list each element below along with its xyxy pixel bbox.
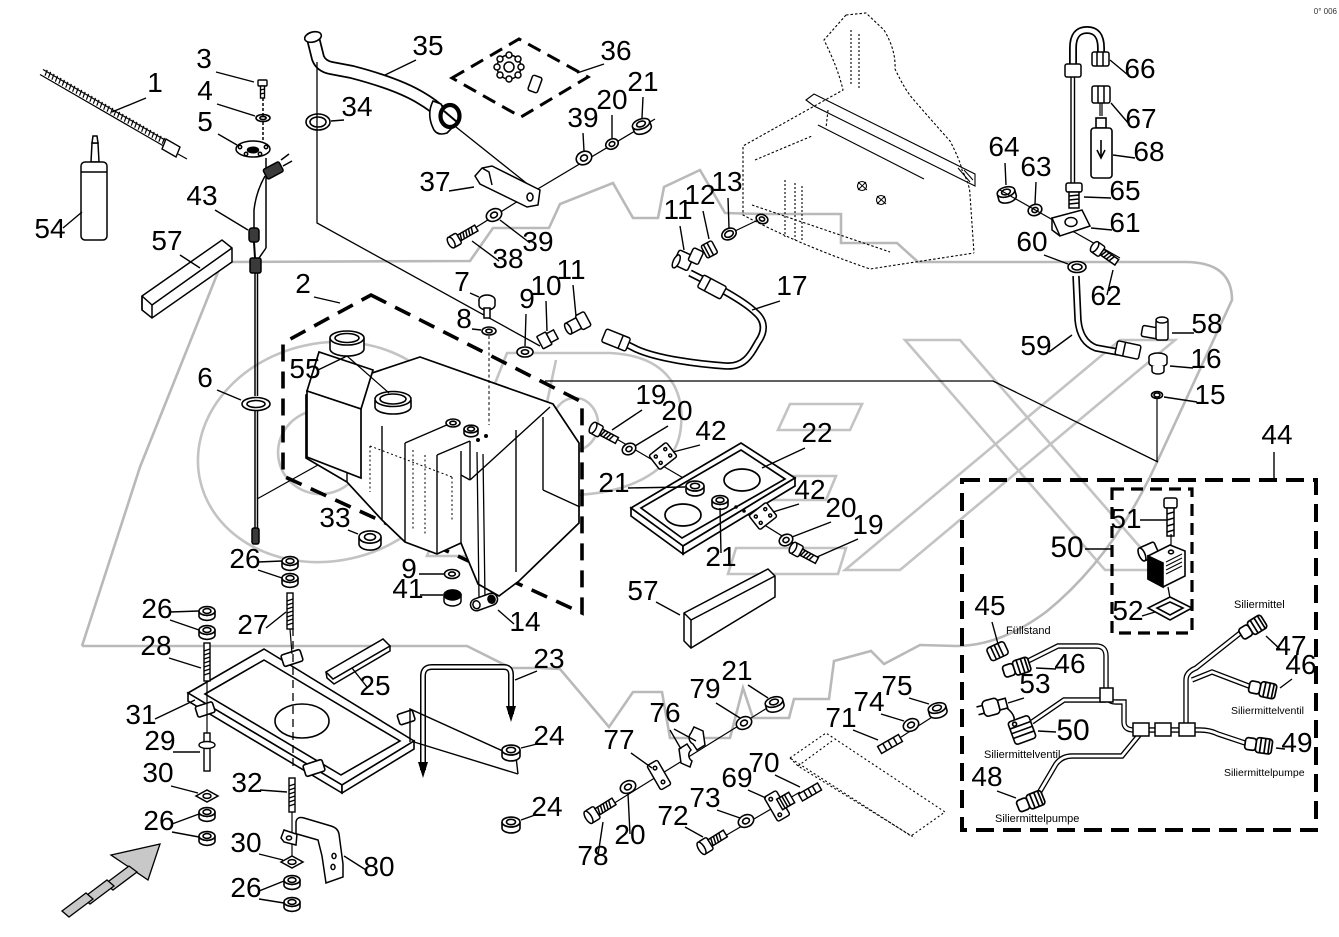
line 32 down bbox=[291, 812, 293, 856]
leader 42a bbox=[673, 445, 700, 452]
part 20d washer bbox=[618, 778, 638, 796]
part 14 link bbox=[469, 592, 499, 613]
svg-text:24: 24 bbox=[533, 720, 564, 751]
svg-text:74: 74 bbox=[853, 686, 884, 717]
leader 5 bbox=[218, 134, 237, 145]
svg-text:35: 35 bbox=[412, 30, 443, 61]
leader 22 bbox=[762, 448, 805, 468]
svg-text:3: 3 bbox=[196, 43, 212, 74]
svg-text:5: 5 bbox=[197, 106, 213, 137]
svg-text:49: 49 bbox=[1281, 727, 1312, 758]
leader 8 bbox=[472, 329, 481, 330]
svg-text:6: 6 bbox=[197, 362, 213, 393]
svg-text:4: 4 bbox=[197, 75, 213, 106]
part 6 ring bbox=[242, 398, 270, 411]
svg-text:50: 50 bbox=[1050, 531, 1083, 564]
hose 17 sleeve right bbox=[697, 275, 727, 300]
svg-text:45: 45 bbox=[974, 590, 1005, 621]
svg-text:Siliermittelpumpe: Siliermittelpumpe bbox=[995, 813, 1079, 825]
part 28 stud bbox=[204, 643, 210, 681]
hose 17 sleeve left bbox=[601, 329, 630, 352]
svg-text:54: 54 bbox=[34, 213, 65, 244]
leader 10 bbox=[546, 301, 547, 331]
part 75 nut bbox=[927, 701, 948, 720]
leader 73 bbox=[717, 810, 740, 818]
66 tube bbox=[1073, 30, 1101, 70]
leader 64 bbox=[1005, 163, 1006, 185]
leader 46b bbox=[1280, 679, 1292, 688]
tank interior edges bbox=[347, 407, 580, 572]
part 68 filter bbox=[1091, 118, 1112, 178]
svg-text:72: 72 bbox=[657, 800, 688, 831]
leader 11b bbox=[680, 226, 684, 250]
leader 26b-2 bbox=[170, 620, 199, 630]
leader 26a-1 bbox=[258, 561, 282, 562]
part 77 plate bbox=[647, 760, 671, 790]
part 26d nut2 bbox=[284, 898, 300, 912]
svg-text:0° 006: 0° 006 bbox=[1314, 7, 1338, 16]
leader 24b bbox=[521, 815, 535, 820]
wire 53 tail bbox=[1004, 706, 1014, 722]
guide 8 down bbox=[488, 336, 490, 425]
part 46a connector bbox=[1001, 657, 1031, 680]
leader 42b bbox=[773, 504, 799, 512]
plate 31 dashed centerline bbox=[292, 628, 294, 766]
svg-text:38: 38 bbox=[492, 243, 523, 274]
part 57b plate bbox=[684, 569, 775, 648]
svg-text:23: 23 bbox=[533, 643, 564, 674]
wire trunk-46b bbox=[1192, 672, 1254, 688]
svg-text:39: 39 bbox=[567, 102, 598, 133]
svg-text:32: 32 bbox=[231, 767, 262, 798]
leader 79 bbox=[716, 703, 740, 718]
leader 44 bbox=[1273, 452, 1275, 480]
leader 57b bbox=[656, 602, 680, 615]
machine hole bbox=[755, 213, 769, 226]
svg-text:73: 73 bbox=[689, 782, 720, 813]
part 63 washer bbox=[1027, 202, 1044, 217]
machine body outline bbox=[743, 13, 975, 269]
svg-text:62: 62 bbox=[1090, 280, 1121, 311]
leader 15 bbox=[1164, 397, 1197, 402]
part 46b connector bbox=[1248, 679, 1278, 699]
wire 50b bbox=[1032, 700, 1106, 722]
part 21b nut bbox=[686, 481, 704, 496]
leader 14 bbox=[498, 610, 514, 624]
leader 20b bbox=[635, 426, 668, 446]
part 51 bolt bbox=[1164, 498, 1177, 536]
part 35 hose ends bbox=[303, 30, 459, 134]
leader 39a bbox=[583, 133, 584, 151]
leader 55-neck bbox=[347, 356, 389, 393]
junction blocks bbox=[1100, 688, 1195, 736]
leader 37 bbox=[449, 187, 474, 191]
part 49 connector bbox=[1244, 736, 1273, 755]
hose 35 tube bbox=[313, 38, 440, 112]
leader 26a-2 bbox=[258, 570, 282, 578]
assembly line 38-37 bbox=[459, 198, 523, 238]
svg-text:Siliermittelventil: Siliermittelventil bbox=[1231, 705, 1304, 717]
svg-text:26: 26 bbox=[229, 543, 260, 574]
svg-text:51: 51 bbox=[1110, 503, 1141, 534]
part 21a nut bbox=[631, 116, 653, 136]
svg-text:15: 15 bbox=[1194, 379, 1225, 410]
part 79 washer bbox=[734, 714, 754, 732]
leader 6 bbox=[217, 390, 241, 400]
part 53 plug bbox=[975, 695, 1008, 718]
part 39b washer bbox=[484, 206, 504, 224]
part 24b nut bbox=[502, 817, 520, 833]
part 22 tray bbox=[631, 443, 795, 554]
part 55 cap bbox=[330, 331, 364, 356]
part 30b washer bbox=[281, 856, 303, 868]
tank top dots bbox=[476, 438, 480, 442]
hose 17 bbox=[608, 273, 763, 366]
leader 2 bbox=[314, 297, 340, 303]
part 67 nut bbox=[1092, 86, 1110, 116]
part 26d nut1 bbox=[284, 876, 300, 890]
assembly line 19a-21b bbox=[603, 431, 697, 486]
svg-text:71: 71 bbox=[825, 702, 856, 733]
leader 7 bbox=[470, 293, 479, 297]
part 36 knob bbox=[494, 52, 542, 93]
leader 20c bbox=[792, 522, 831, 537]
leader 58 bbox=[1172, 332, 1194, 334]
svg-text:67: 67 bbox=[1125, 103, 1156, 134]
leader 30a bbox=[171, 786, 198, 793]
leader 71 bbox=[853, 730, 878, 740]
leader 21c bbox=[720, 508, 721, 553]
wire trunk-49 bbox=[1160, 730, 1248, 744]
svg-text:59: 59 bbox=[1020, 330, 1051, 361]
svg-text:60: 60 bbox=[1016, 226, 1047, 257]
svg-text:17: 17 bbox=[776, 270, 807, 301]
svg-text:65: 65 bbox=[1109, 175, 1140, 206]
svg-text:63: 63 bbox=[1020, 151, 1051, 182]
leader 51 bbox=[1140, 519, 1167, 521]
leader 34 bbox=[331, 120, 344, 121]
svg-text:44: 44 bbox=[1261, 419, 1292, 450]
part 61 bracket bbox=[1052, 210, 1090, 236]
leader 9a bbox=[525, 314, 526, 346]
leader 1 bbox=[112, 98, 146, 112]
part 45 connector bbox=[986, 641, 1009, 662]
svg-text:Siliermittelventil: Siliermittelventil bbox=[984, 749, 1060, 761]
box 36 dashed bbox=[452, 39, 588, 117]
part 20a washer bbox=[604, 137, 620, 152]
leader 52 bbox=[1142, 612, 1155, 616]
gray panel outline bbox=[82, 170, 1232, 738]
leader 68 bbox=[1113, 155, 1135, 158]
svg-text:68: 68 bbox=[1133, 136, 1164, 167]
box 50 dashed bbox=[1112, 489, 1192, 633]
part 70 pin bbox=[798, 783, 821, 801]
part 1 cable tie rod bbox=[40, 70, 187, 160]
part 65 nipple bbox=[1066, 183, 1082, 208]
svg-text:Siliermittel: Siliermittel bbox=[1234, 599, 1285, 611]
svg-text:46: 46 bbox=[1285, 649, 1316, 680]
part 26b nut2 bbox=[199, 626, 215, 640]
part 16 fitting bbox=[1149, 353, 1167, 374]
svg-text:20: 20 bbox=[596, 84, 627, 115]
svg-text:24: 24 bbox=[531, 791, 562, 822]
part 41 plug bbox=[444, 590, 461, 606]
svg-text:37: 37 bbox=[419, 166, 450, 197]
leader 69 bbox=[748, 790, 766, 798]
leader 63 bbox=[1035, 182, 1036, 204]
part 32 stud bbox=[289, 778, 295, 812]
svg-text:52: 52 bbox=[1112, 595, 1143, 626]
leader 61 bbox=[1091, 228, 1112, 230]
assembly line 42b-19b bbox=[737, 508, 816, 557]
leader 62 bbox=[1107, 270, 1113, 295]
svg-text:2: 2 bbox=[295, 268, 311, 299]
part 26c nut1 bbox=[199, 808, 215, 822]
leader 20a bbox=[611, 115, 613, 138]
svg-text:30: 30 bbox=[142, 757, 173, 788]
leader 30b bbox=[259, 854, 283, 860]
tank top washer bbox=[446, 419, 460, 427]
hose 59 bbox=[1076, 276, 1118, 352]
assembly line 64-62 bbox=[1000, 190, 1120, 258]
box 44 dashed bbox=[962, 480, 1316, 830]
leader 19b bbox=[817, 539, 858, 557]
leader 13 to machine bbox=[735, 220, 758, 231]
part 30a washer bbox=[196, 790, 218, 802]
tube 66-65 bbox=[1070, 77, 1072, 183]
leader 35 bbox=[385, 60, 416, 75]
part 78 bolt bbox=[582, 795, 617, 824]
leader 26c-2 bbox=[172, 832, 199, 837]
part 80 bracket bbox=[281, 818, 343, 884]
leader 49 bbox=[1276, 748, 1285, 749]
assembly line 72-70 bbox=[713, 792, 800, 843]
leader 76-2 bbox=[674, 729, 696, 741]
svg-text:34: 34 bbox=[341, 91, 372, 122]
part 57 plate upper left bbox=[142, 240, 232, 318]
part 7 screw bbox=[479, 295, 495, 318]
part 60 ring bbox=[1068, 262, 1086, 273]
leader 3 bbox=[216, 72, 254, 82]
leader 31 bbox=[155, 700, 195, 719]
svg-text:53: 53 bbox=[1019, 668, 1050, 699]
svg-text:58: 58 bbox=[1191, 308, 1222, 339]
part 43 sensor cable bbox=[249, 98, 292, 544]
part 47 connector bbox=[1237, 614, 1268, 641]
double line to 14 bbox=[477, 452, 479, 597]
svg-text:46: 46 bbox=[1054, 648, 1085, 679]
leader 16 bbox=[1170, 366, 1193, 368]
guide 15 down bbox=[1156, 399, 1158, 461]
svg-text:21: 21 bbox=[598, 467, 629, 498]
leader 39b bbox=[500, 220, 530, 243]
part 33 nut bbox=[359, 531, 381, 550]
svg-text:20: 20 bbox=[661, 395, 692, 426]
dotted chute bbox=[790, 733, 945, 838]
svg-text:57: 57 bbox=[627, 575, 658, 606]
svg-text:22: 22 bbox=[801, 417, 832, 448]
leader 57a bbox=[180, 255, 200, 268]
part 3 screw bbox=[258, 80, 267, 98]
leader 66 bbox=[1110, 60, 1128, 75]
part 4 washer bbox=[256, 115, 270, 122]
svg-text:Füllstand: Füllstand bbox=[1006, 625, 1051, 637]
part 74 washer bbox=[901, 716, 921, 734]
svg-text:13: 13 bbox=[711, 166, 742, 197]
svg-text:26: 26 bbox=[141, 593, 172, 624]
guide line dipstick bbox=[257, 426, 388, 499]
svg-text:21: 21 bbox=[627, 66, 658, 97]
part 8 washer bbox=[482, 327, 496, 335]
leader 21d bbox=[748, 685, 768, 698]
svg-text:30: 30 bbox=[230, 827, 261, 858]
leader 12 bbox=[703, 211, 709, 239]
part 42b plate bbox=[749, 502, 777, 530]
part 26b nut1 bbox=[199, 607, 215, 621]
assembly line 78-21 bbox=[600, 700, 780, 812]
leader 13 bbox=[728, 198, 729, 228]
part 11b elbow bbox=[671, 247, 704, 270]
line 27 down bbox=[290, 629, 292, 654]
svg-text:26: 26 bbox=[230, 872, 261, 903]
leader 27 bbox=[266, 612, 286, 628]
leader 78 bbox=[598, 822, 603, 855]
part 73 washer bbox=[736, 812, 756, 830]
part 50 solenoid coil bbox=[1136, 534, 1185, 598]
leader 45 bbox=[992, 622, 998, 644]
leader 50b bbox=[1038, 731, 1056, 732]
part 29 pin bbox=[199, 733, 215, 771]
leader 55 bbox=[318, 356, 347, 370]
svg-text:16: 16 bbox=[1190, 343, 1221, 374]
svg-text:25: 25 bbox=[359, 670, 390, 701]
leader 9b bbox=[419, 573, 444, 575]
leader 21b bbox=[628, 487, 685, 488]
leader 41 bbox=[420, 594, 443, 596]
assembly line 35-37 bbox=[456, 127, 535, 190]
svg-text:77: 77 bbox=[603, 724, 634, 755]
svg-text:42: 42 bbox=[794, 474, 825, 505]
part 27 stud bbox=[287, 593, 293, 629]
assembly line 71-75 bbox=[884, 712, 940, 748]
part 19a bolt bbox=[588, 421, 620, 446]
part tank left block bbox=[307, 352, 373, 478]
wire 46a-trunk bbox=[1022, 646, 1160, 730]
watermark letters bbox=[177, 317, 1175, 587]
wire trunk-48 bbox=[1036, 734, 1140, 798]
leader 65 bbox=[1084, 197, 1111, 198]
leader 50a bbox=[1085, 548, 1112, 550]
part 76 clamp halves bbox=[679, 727, 705, 767]
guide line hose35 to tank bbox=[317, 62, 540, 346]
strap 23 arrows bbox=[418, 762, 428, 778]
wire trunk-47 bbox=[1186, 630, 1244, 726]
svg-text:79: 79 bbox=[689, 673, 720, 704]
leader 23 bbox=[515, 671, 537, 680]
part 52 seal bbox=[1148, 597, 1192, 620]
leader 60 bbox=[1044, 255, 1068, 264]
part 26c nut2 bbox=[199, 832, 215, 846]
tank interior dotted lines bbox=[370, 446, 452, 535]
leader 26c-1 bbox=[172, 814, 199, 824]
svg-text:57: 57 bbox=[151, 225, 182, 256]
svg-text:27: 27 bbox=[237, 609, 268, 640]
leader 25 bbox=[352, 668, 367, 687]
part 42a plate bbox=[649, 442, 677, 470]
hose 59 sleeve bbox=[1115, 341, 1141, 360]
leader 28 bbox=[169, 658, 201, 668]
part 38 bolt bbox=[446, 223, 480, 249]
svg-text:43: 43 bbox=[186, 180, 217, 211]
part 13 ring bbox=[720, 226, 738, 242]
part 15 oring bbox=[1152, 392, 1163, 399]
tray small dots bbox=[734, 505, 738, 509]
leader 70 bbox=[775, 775, 800, 787]
leader 33 bbox=[348, 530, 358, 534]
guide line tank mount bbox=[545, 381, 1158, 462]
svg-text:78: 78 bbox=[577, 840, 608, 871]
svg-text:33: 33 bbox=[319, 502, 350, 533]
leader 74 bbox=[881, 714, 904, 721]
svg-text:48: 48 bbox=[971, 761, 1002, 792]
svg-text:8: 8 bbox=[456, 303, 472, 334]
part 24a nut bbox=[502, 745, 520, 761]
part tank body bbox=[306, 357, 579, 596]
mount frame right of plate bbox=[410, 709, 518, 774]
leader 29 bbox=[173, 751, 200, 753]
leader 47 bbox=[1266, 636, 1281, 650]
part 62 bolt bbox=[1089, 240, 1120, 267]
leader 43 bbox=[215, 210, 248, 230]
leader 59 bbox=[1049, 335, 1072, 352]
part 39a washer bbox=[574, 149, 594, 168]
leader 54 bbox=[63, 212, 82, 228]
leader 4 bbox=[217, 104, 255, 116]
svg-text:66: 66 bbox=[1124, 53, 1155, 84]
leader 19a bbox=[612, 410, 642, 430]
leader 24a bbox=[521, 744, 537, 748]
svg-text:14: 14 bbox=[509, 606, 540, 637]
leader 32 bbox=[260, 790, 287, 792]
part 9a ring bbox=[517, 347, 533, 357]
svg-text:70: 70 bbox=[748, 747, 779, 778]
part 21d nut bbox=[764, 695, 785, 714]
part 20c washer bbox=[777, 532, 794, 548]
tank filler neck bbox=[375, 392, 411, 415]
leader 17 bbox=[752, 301, 780, 310]
svg-text:76: 76 bbox=[649, 697, 680, 728]
part 54 cartridge tube bbox=[81, 136, 107, 240]
leader 26d-2 bbox=[259, 899, 284, 903]
part 12 fitting bbox=[701, 240, 718, 258]
part 26a nut1 bbox=[282, 557, 298, 571]
leader 76-1 bbox=[670, 730, 681, 749]
part 10 fitting bbox=[537, 328, 559, 349]
leader 26b-1 bbox=[170, 611, 199, 612]
part 50b coil bbox=[1008, 715, 1037, 745]
leader 20d bbox=[628, 794, 630, 834]
part 11a elbow bbox=[562, 311, 591, 337]
part 20b washer bbox=[620, 441, 637, 457]
svg-text:11: 11 bbox=[556, 254, 585, 285]
leader 26d-1 bbox=[259, 881, 284, 891]
assembly line 37-21 bbox=[536, 119, 655, 190]
leader 75 bbox=[909, 698, 929, 704]
svg-text:50: 50 bbox=[1056, 714, 1089, 747]
leader 21a bbox=[642, 97, 643, 118]
part 58 elbow bbox=[1141, 317, 1168, 340]
part 48 connector bbox=[1015, 790, 1046, 814]
